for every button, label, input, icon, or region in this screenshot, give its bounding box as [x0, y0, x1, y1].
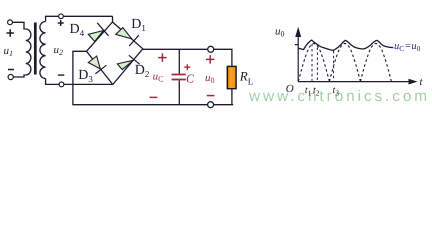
minus sign uc: [150, 96, 158, 98]
dashed rectified sine humps: [298, 44, 391, 82]
diode D1: [116, 28, 139, 46]
capacitor C leads: [178, 49, 180, 104]
diode D4: [88, 23, 108, 42]
plus sign uo: [206, 55, 214, 63]
terminal output top: [208, 46, 214, 52]
minus sign u1: [8, 69, 14, 71]
plus sign u1: [7, 29, 14, 36]
wire bridge minus output rail: [73, 51, 233, 104]
terminal primary top: [8, 20, 13, 25]
wire secondary top: [46, 16, 59, 21]
terminal output bottom: [208, 102, 214, 108]
plus sign u2: [58, 20, 64, 26]
wire primary bottom: [13, 75, 25, 77]
resistor RL: [227, 66, 236, 88]
transformer T1 secondary winding: [40, 22, 46, 79]
tick peak level: [295, 44, 298, 46]
capacitor C plates: [172, 75, 186, 80]
diode D3: [88, 56, 106, 74]
wire node b to bridge bottom: [64, 83, 113, 85]
wire bridge plus output rail: [143, 49, 232, 66]
droplines t1 t2 t3: [312, 44, 334, 81]
transformer T1 core: [34, 23, 37, 75]
svg-text:O: O: [286, 83, 294, 95]
plus sign capacitor polarity: [184, 64, 190, 70]
bridge diamond wires: [87, 22, 143, 85]
svg-text:C: C: [186, 72, 195, 86]
solid filtered output curve uc: [298, 40, 393, 50]
minus sign u2: [58, 74, 64, 76]
plus sign uc: [158, 53, 166, 61]
diode D2: [117, 55, 139, 69]
wire secondary bottom: [46, 79, 60, 85]
wire RL bottom lead: [231, 89, 233, 105]
terminal secondary top: [59, 14, 64, 19]
plot y-axis: [297, 33, 299, 82]
plot x-axis: [298, 81, 410, 83]
terminal primary bottom: [8, 74, 13, 79]
minus sign uo: [207, 95, 215, 97]
terminal secondary bottom: [59, 82, 64, 87]
wire node a to bridge top: [63, 16, 112, 22]
wire primary top: [12, 22, 25, 29]
transformer T1 primary winding: [26, 29, 31, 75]
